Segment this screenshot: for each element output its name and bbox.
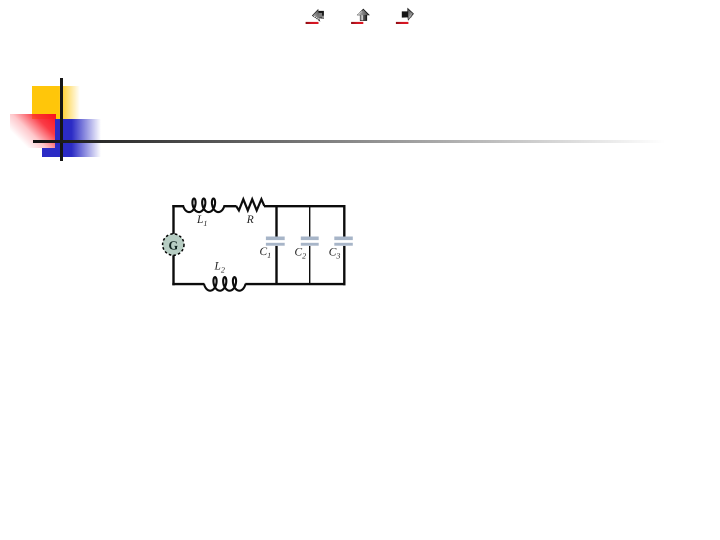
svg-text:C3: C3	[329, 247, 341, 261]
svg-text:L1: L1	[196, 214, 207, 228]
svg-text:C1: C1	[260, 246, 272, 260]
svg-text:R: R	[246, 214, 254, 226]
svg-text:L2: L2	[214, 261, 225, 275]
svg-text:C2: C2	[295, 247, 307, 261]
svg-text:G: G	[168, 238, 178, 252]
